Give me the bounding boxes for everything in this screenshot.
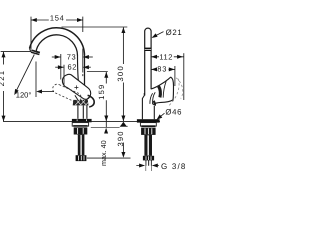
dim 112 line <box>151 56 183 58</box>
83 ext line <box>174 66 176 86</box>
faucet body (right view) <box>142 93 154 119</box>
159 top ext line <box>87 71 108 73</box>
threaded shank (right view) <box>144 135 152 156</box>
dim 159 vertical line <box>105 72 107 127</box>
svg-text:max. 40: max. 40 <box>99 140 108 166</box>
390 bottom ext line <box>87 157 131 159</box>
pipe ring band <box>145 48 151 51</box>
centerline segments below spout <box>82 49 84 71</box>
svg-text:120°: 120° <box>16 91 32 100</box>
svg-text:Ø21: Ø21 <box>166 28 183 37</box>
spout arc inner (left view) <box>36 35 77 56</box>
dim 73 arrows outside pointing in <box>52 56 61 58</box>
svg-text:62: 62 <box>68 63 78 72</box>
lever handle dashed (left view, lowered position) <box>53 84 81 102</box>
dim 73: ext lines <box>61 54 64 85</box>
mounting nut (left view) <box>74 127 88 134</box>
handle inner line + pivot dot <box>163 81 166 98</box>
G3/8 dim arrows <box>136 165 159 167</box>
dim 300 arrows <box>121 27 125 121</box>
spout tube right sides down to body <box>84 56 86 97</box>
svg-text:73: 73 <box>67 52 77 61</box>
spout arc outer (left view) <box>30 28 85 56</box>
dim 390 bottom arrow <box>121 152 125 158</box>
Ø46 leader <box>158 113 165 119</box>
svg-text:390: 390 <box>116 130 125 146</box>
120deg arrow to axis <box>36 90 42 94</box>
deck line <box>3 120 160 122</box>
lever neck curl (left view) <box>88 95 95 107</box>
dim 62 arrows <box>55 66 63 68</box>
Ø21 leader <box>153 32 164 38</box>
shank end block (right view) <box>143 156 154 161</box>
spout outlet stub <box>30 48 38 53</box>
pivot cross <box>74 85 78 89</box>
escutcheon base (right view) <box>137 119 160 122</box>
lever handle solid (left view, raised) <box>62 74 90 99</box>
handle swing dashed arc (right view) <box>169 78 182 106</box>
lever skirt to collar <box>75 95 89 100</box>
dim 154 arrows <box>31 18 83 22</box>
svg-text:154: 154 <box>50 13 65 22</box>
body column (left view) <box>78 105 87 118</box>
120deg leader line <box>16 55 35 93</box>
swivel collar hatched band (left view) <box>73 100 89 106</box>
shank end block (left view) <box>76 155 87 161</box>
svg-text:112: 112 <box>159 52 173 61</box>
dim 221 arrows <box>2 52 6 122</box>
svg-text:83: 83 <box>157 65 167 74</box>
spout top level ext line (for 300) <box>62 26 128 28</box>
below-deck flange (left view) <box>72 123 88 127</box>
svg-text:221: 221 <box>0 70 6 87</box>
svg-text:G 3/8: G 3/8 <box>161 162 187 171</box>
riser pipe (right view) <box>145 28 151 95</box>
below-deck flange (right view) <box>140 123 156 127</box>
dim 159 arrows <box>104 72 108 121</box>
outlet aerator face <box>31 50 40 52</box>
120deg outlet axis ext <box>35 62 37 98</box>
svg-text:159: 159 <box>97 84 106 100</box>
deck underside line <box>91 127 120 129</box>
dim 221 vertical line <box>3 52 5 121</box>
max40 below-deck arrow <box>104 128 108 134</box>
handle collar (right view) <box>150 93 153 104</box>
svg-text:300: 300 <box>116 65 125 82</box>
threaded shank (left view) <box>78 135 85 156</box>
ext line right of 154 / centerline top <box>82 17 84 32</box>
ext line outlet level (221 top) <box>1 51 32 53</box>
escutcheon base (left view) <box>72 119 92 122</box>
112 ext line <box>183 53 185 100</box>
mounting nut (right view) <box>141 128 156 135</box>
svg-text:Ø46: Ø46 <box>165 107 182 116</box>
G3/8 tube (right view) <box>146 160 152 165</box>
dim 300/390 vertical line <box>122 27 124 152</box>
handle paddle (right view) <box>151 77 173 105</box>
ext line left of 154 <box>30 17 32 50</box>
dim 83 line <box>151 68 174 70</box>
dim 154 line <box>31 19 83 21</box>
